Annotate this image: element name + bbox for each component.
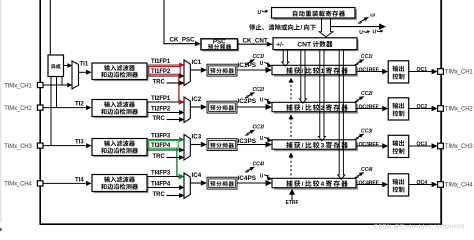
- capture/compare register 2 box: [274, 104, 358, 113]
- svg-text:TIMx_CH4: TIMx_CH4: [4, 182, 32, 188]
- svg-text:2: 2: [321, 105, 325, 112]
- svg-text:CNT: CNT: [297, 41, 312, 48]
- svg-text:CC3I: CC3I: [253, 124, 265, 130]
- wire TI4FP3 to IC4 mux: [147, 176, 179, 178]
- pin TIMx_CH3: [37, 143, 43, 148]
- svg-text:UI: UI: [370, 13, 375, 19]
- dashed arrow register2 -> register1: [290, 82, 292, 100]
- svg-text:/: /: [302, 181, 304, 188]
- output control box 2: [388, 98, 409, 120]
- wire: right boundary of timer block: [440, 0, 442, 225]
- wire XOR output to TI1 select mux: [64, 65, 68, 67]
- wire TI3 from pin: [43, 145, 86, 147]
- output control box 3: [388, 135, 409, 157]
- svg-text:/: /: [302, 143, 304, 150]
- svg-text:OC2REF: OC2REF: [359, 105, 379, 111]
- wire IC2 to prescaler: [190, 106, 201, 108]
- wire IC2PS into capture/compare register 2: [237, 106, 266, 108]
- wire CK_CNT from PSC to CNT counter: [238, 43, 268, 45]
- pin TIMx_CH4 (output): [438, 182, 444, 188]
- wire TI1 from pin: [43, 84, 68, 86]
- wire IC1 to prescaler: [190, 69, 201, 71]
- svg-text:TIMx_CH2: TIMx_CH2: [445, 107, 474, 113]
- prescaler box 4: [207, 177, 237, 189]
- wire IC3PS into capture/compare register 3: [237, 144, 266, 146]
- svg-text:IC2: IC2: [192, 96, 202, 103]
- svg-text:U: U: [359, 30, 363, 36]
- svg-text:TI4FP3: TI4FP3: [151, 170, 171, 176]
- dashed arrow register4 -> register3: [290, 157, 292, 176]
- wire OC4 to output pin: [409, 184, 432, 186]
- svg-text:IC2PS: IC2PS: [238, 98, 257, 105]
- wire OC1 to output pin: [409, 71, 432, 73]
- svg-text:CSDN @Embedded_Vincent66: CSDN @Embedded_Vincent66: [374, 224, 465, 231]
- red wire TI1FP2 down to IC2 mux: [178, 74, 180, 102]
- wire TI2FP1 to IC2 mux: [147, 101, 179, 103]
- hollow arrow from CNT down into capture/compare register 1: [282, 50, 289, 67]
- wire TI4FP4 to IC4 mux: [147, 187, 180, 189]
- svg-text:/: /: [302, 105, 304, 112]
- svg-text:CC2I: CC2I: [361, 91, 373, 97]
- svg-text:TRC: TRC: [153, 116, 166, 122]
- svg-text:TI2FP1: TI2FP1: [151, 96, 171, 102]
- svg-text:CC4I: CC4I: [253, 161, 265, 167]
- svg-text:1: 1: [321, 68, 325, 75]
- svg-text:U: U: [260, 136, 264, 142]
- input filter & edge detector box 3: [94, 140, 149, 157]
- input filter & edge detector box 2: [94, 101, 149, 118]
- wire TRC into IC1 mux: [167, 82, 180, 84]
- svg-text:CK_CNT: CK_CNT: [243, 38, 268, 45]
- pin TIMx_CH1: [37, 82, 43, 87]
- wire IC3 to prescaler: [190, 144, 201, 146]
- svg-text:OC3: OC3: [417, 141, 428, 147]
- svg-text:OC1REF: OC1REF: [359, 68, 379, 74]
- pin TIMx_CH1 (output): [438, 69, 444, 75]
- CC2I event slash arrow (right): [356, 98, 361, 100]
- output control box 1: [388, 61, 409, 83]
- CC4I event slash arrow (right): [356, 174, 361, 176]
- wire TRC into IC2 mux: [167, 119, 180, 121]
- prescaler box 3: [207, 139, 237, 151]
- mux IC3 input select: [184, 135, 190, 161]
- svg-text:TI3FP4: TI3FP4: [151, 143, 171, 149]
- svg-text:TI3FP3: TI3FP3: [151, 133, 171, 139]
- pin TIMx_CH3 (output): [438, 143, 444, 149]
- mux IC1 input select: [184, 60, 190, 86]
- mux IC4 input select: [184, 173, 190, 199]
- svg-text:TI1: TI1: [80, 62, 89, 68]
- CC1I event slash arrow (right): [356, 61, 361, 63]
- wire CK_PSC from top into PSC prescaler: [163, 0, 165, 44]
- wire TI1FP1 (red highlighted) to IC1 mux: [147, 64, 180, 66]
- svg-text:3: 3: [321, 143, 325, 150]
- green wire TI3FP4 down to IC4 mux: [177, 148, 179, 176]
- svg-text:OC4REF: OC4REF: [359, 181, 379, 187]
- svg-text:TI4: TI4: [75, 177, 84, 183]
- capture/compare register 2 text: [286, 104, 292, 110]
- svg-text:CC1I: CC1I: [361, 54, 373, 60]
- capture/compare register 3 text: [286, 142, 292, 148]
- svg-text:TIMx_CH1: TIMx_CH1: [4, 83, 32, 89]
- svg-text:TRC: TRC: [153, 192, 166, 198]
- label: stop clear or up/down: [249, 24, 255, 30]
- capture/compare register 1 box: [274, 67, 358, 76]
- CC1I event slash arrow (left): [247, 62, 252, 64]
- wire TI3FP3 (green highlighted) to IC3 mux: [147, 139, 180, 141]
- svg-text:TIMx_CH3: TIMx_CH3: [4, 144, 32, 150]
- CC3I event slash arrow (left): [247, 132, 252, 134]
- svg-text:TRC: TRC: [153, 80, 166, 86]
- wire OC1REF to output control: [356, 71, 382, 73]
- svg-text:4: 4: [321, 181, 325, 188]
- svg-text:TIMx_CH4: TIMx_CH4: [445, 183, 474, 189]
- svg-text:U: U: [260, 98, 264, 104]
- capture/compare register 4 text: [286, 180, 292, 186]
- CC2I event slash arrow (left): [247, 94, 252, 96]
- wire OC4REF to output control: [356, 184, 382, 186]
- svg-text:U: U: [260, 173, 264, 179]
- wire: left boundary of timer block: [39, 0, 41, 224]
- svg-text:IC4: IC4: [192, 172, 202, 179]
- wire update event arrow to the right: [331, 26, 380, 28]
- CC3I event slash arrow (right): [356, 136, 361, 138]
- svg-text:TIMx_CH2: TIMx_CH2: [4, 106, 32, 112]
- output control box 4: [388, 174, 409, 196]
- svg-text:CC2I: CC2I: [253, 87, 265, 93]
- svg-text:PSC: PSC: [213, 38, 226, 45]
- prescaler box 1: [207, 64, 237, 76]
- wire TRC into IC4 mux: [167, 195, 180, 197]
- wire OC3REF to output control: [356, 145, 382, 147]
- svg-text:OC4: OC4: [417, 180, 428, 186]
- svg-text:TI1FP1: TI1FP1: [151, 59, 171, 65]
- green box around TI3FP4: [149, 140, 178, 148]
- svg-text:CC3I: CC3I: [361, 129, 373, 135]
- input filter & edge detector box 4: [94, 176, 149, 193]
- wire IC4 to prescaler: [190, 182, 201, 184]
- wire TI3FP4 to IC3 mux: [147, 149, 180, 151]
- wire OC2REF to output control: [356, 108, 382, 110]
- wire TRC into IC3 mux: [167, 157, 180, 159]
- wire TI1 into input filter 1: [79, 71, 87, 73]
- svg-text:TI2: TI2: [75, 102, 84, 108]
- svg-text:ETRF: ETRF: [286, 200, 299, 206]
- CC4I event slash arrow (left): [247, 169, 252, 171]
- capture/compare register 1 text: [286, 67, 292, 73]
- wire OC2 to output pin: [409, 108, 432, 110]
- wire TI1FP2 to IC1 mux: [147, 75, 180, 77]
- hollow arrow from auto-reload register down to CNT: [319, 18, 333, 37]
- svg-text:IC3: IC3: [192, 133, 202, 140]
- PSC prescaler box: [203, 40, 240, 51]
- svg-text:U: U: [373, 30, 377, 36]
- svg-text:U: U: [260, 61, 264, 67]
- UI event slash arrow: [360, 20, 366, 22]
- svg-text:IC1: IC1: [192, 59, 202, 66]
- ETRF arrow into register4: [291, 195, 293, 201]
- svg-text:+/-: +/-: [276, 41, 284, 48]
- svg-text:OC1: OC1: [417, 67, 428, 73]
- svg-text:U: U: [258, 10, 262, 16]
- svg-text:TIMx_CH3: TIMx_CH3: [445, 144, 474, 150]
- hollow arrow from CNT down into capture/compare register 4: [338, 50, 345, 180]
- svg-text:TIMx_CH1: TIMx_CH1: [445, 70, 474, 76]
- wire into XOR from top: [49, 0, 51, 55]
- svg-text:OC2: OC2: [417, 104, 428, 110]
- XOR input taps from CH1 CH2 CH3: [61, 77, 63, 86]
- input filter & edge detector box 1: [94, 65, 149, 82]
- mux IC2 input select: [184, 97, 190, 123]
- svg-text:/: /: [302, 68, 304, 75]
- svg-text:TI1FP2: TI1FP2: [151, 69, 171, 75]
- pin TIMx_CH4: [37, 181, 43, 186]
- svg-text:TI4FP4: TI4FP4: [151, 181, 171, 187]
- red box around TI1FP2: [149, 66, 180, 74]
- svg-text:/: /: [301, 25, 303, 32]
- svg-text:CC4I: CC4I: [361, 167, 373, 173]
- mux: TI1 source select: [72, 61, 79, 89]
- hollow arrow from CNT down into capture/compare register 3: [318, 50, 325, 141]
- wire IC4PS into capture/compare register 4: [237, 182, 266, 184]
- auto-reload register box: [273, 9, 357, 20]
- svg-text:TI3: TI3: [75, 140, 84, 146]
- wire OC3 to output pin: [409, 145, 432, 147]
- wire TI2FP2 to IC2 mux: [147, 112, 180, 114]
- capture/compare register 4 box: [274, 180, 358, 189]
- hollow arrow from CNT down into capture/compare register 2: [299, 50, 306, 104]
- capture/compare register 3 box: [274, 142, 358, 151]
- svg-text:TRC: TRC: [153, 154, 166, 160]
- wire TI2 from pin: [43, 107, 86, 109]
- prescaler box 2: [207, 101, 237, 113]
- svg-text:IC4PS: IC4PS: [238, 175, 257, 182]
- XOR gate box: [48, 55, 64, 77]
- wire TI4 from pin: [43, 182, 86, 184]
- pin TIMx_CH2 (output): [438, 106, 444, 112]
- wire: bottom boundary of timer block: [40, 223, 442, 225]
- svg-text:TI2FP2: TI2FP2: [151, 106, 171, 112]
- svg-text:CK_PSC: CK_PSC: [170, 37, 196, 44]
- pin TIMx_CH2: [37, 105, 43, 110]
- svg-text:CC1I: CC1I: [253, 54, 265, 60]
- dashed arrow register3 -> register2: [290, 119, 292, 138]
- wire IC1PS into capture/compare register 1: [237, 69, 266, 71]
- CNT counter box: [275, 39, 359, 51]
- svg-text:OC3REF: OC3REF: [359, 142, 379, 148]
